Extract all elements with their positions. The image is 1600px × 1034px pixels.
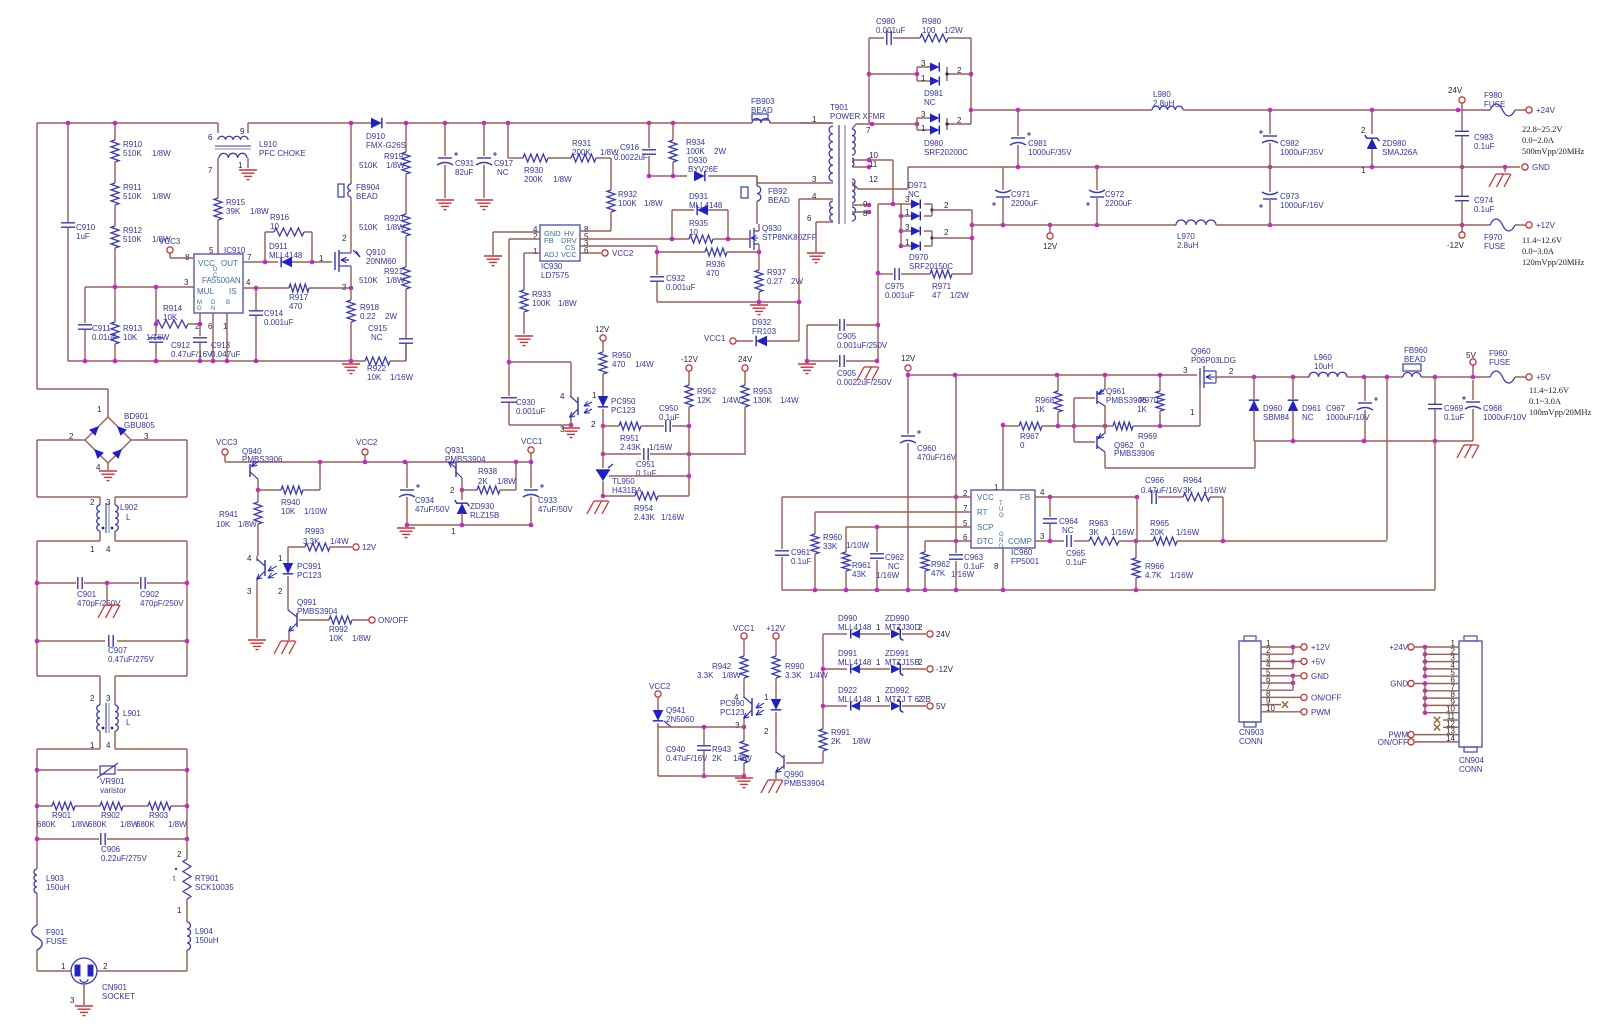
svg-text:C911: C911 [92,324,111,333]
svg-text:FUSE: FUSE [1484,242,1505,251]
svg-text:R951: R951 [620,434,640,443]
svg-text:2: 2 [1229,367,1234,376]
svg-text:2.8uH: 2.8uH [1153,99,1175,108]
svg-text:R950: R950 [612,351,632,360]
svg-text:11.4~12.6V: 11.4~12.6V [1522,235,1563,245]
svg-text:43K: 43K [852,570,867,579]
svg-text:R960: R960 [823,533,843,542]
svg-text:PC123: PC123 [297,571,322,580]
svg-text:C905: C905 [837,332,857,341]
svg-text:10K: 10K [329,634,344,643]
svg-text:1000uF/10V: 1000uF/10V [1483,413,1527,422]
svg-text:ON/OFF: ON/OFF [378,616,408,625]
svg-text:0.0~2.0A: 0.0~2.0A [1522,135,1555,145]
svg-text:BEAD: BEAD [1404,355,1426,364]
svg-text:1/8W: 1/8W [386,223,405,232]
svg-text:1: 1 [238,161,243,170]
svg-text:1: 1 [876,658,881,667]
svg-text:+12V: +12V [1536,221,1556,230]
svg-text:39K: 39K [226,207,241,216]
svg-text:1: 1 [90,741,95,750]
svg-text:100K: 100K [618,199,637,208]
svg-text:47uF/50V: 47uF/50V [415,505,450,514]
svg-text:ZD930: ZD930 [470,502,495,511]
svg-text:1: 1 [278,554,283,563]
svg-text:100: 100 [922,26,936,35]
svg-text:PMBS3904: PMBS3904 [445,455,486,464]
svg-text:DTC: DTC [977,537,994,546]
svg-text:CN904: CN904 [1459,756,1484,765]
svg-text:FUSE: FUSE [1489,358,1510,367]
svg-text:10uH: 10uH [1314,362,1333,371]
svg-text:R932: R932 [618,190,638,199]
svg-text:VCC2: VCC2 [356,438,378,447]
svg-text:R938: R938 [478,467,498,476]
svg-text:B: B [226,300,230,306]
svg-text:FUSE: FUSE [46,937,67,946]
svg-text:5V: 5V [1466,351,1476,360]
svg-text:MUL: MUL [197,287,214,296]
svg-text:MLL4148: MLL4148 [838,658,872,667]
svg-text:5V: 5V [936,702,946,711]
svg-text:10: 10 [869,151,878,160]
svg-text:2: 2 [103,962,108,971]
svg-text:PC123: PC123 [720,708,745,717]
svg-text:Q991: Q991 [297,598,317,607]
svg-text:BEAD: BEAD [356,192,378,201]
svg-text:1/10W: 1/10W [304,507,328,516]
svg-text:1uF: 1uF [76,232,90,241]
svg-text:0.1~3.0A: 0.1~3.0A [1529,396,1562,406]
svg-text:1: 1 [533,247,538,256]
svg-text:1/8W: 1/8W [558,299,577,308]
svg-text:Q960: Q960 [1191,347,1211,356]
svg-text:3.3K: 3.3K [697,671,714,680]
svg-text:1: 1 [905,208,910,217]
svg-text:Q910: Q910 [366,248,386,257]
svg-text:2: 2 [342,234,347,243]
svg-text:ON/OFF: ON/OFF [1311,693,1341,702]
svg-text:D990: D990 [838,614,858,623]
svg-text:L910: L910 [259,140,277,149]
svg-text:CN903: CN903 [1239,728,1264,737]
svg-text:2K: 2K [712,754,722,763]
svg-text:GND: GND [1532,163,1550,172]
svg-text:R930: R930 [524,166,544,175]
svg-text:FB960: FB960 [1404,346,1428,355]
svg-text:10K: 10K [216,520,231,529]
svg-text:R915: R915 [226,198,246,207]
svg-text:1: 1 [451,527,456,536]
svg-text:R991: R991 [831,728,851,737]
svg-text:C973: C973 [1280,192,1300,201]
svg-text:ON/OFF: ON/OFF [1378,738,1408,747]
svg-text:1000uF/35V: 1000uF/35V [1028,148,1072,157]
svg-text:0.1uF: 0.1uF [791,557,812,566]
svg-text:MTZJ30D: MTZJ30D [885,623,920,632]
svg-text:12V: 12V [362,543,377,552]
svg-text:3K: 3K [1183,486,1193,495]
svg-text:2K: 2K [831,737,841,746]
svg-text:20NM60: 20NM60 [366,257,397,266]
svg-text:1/16W: 1/16W [876,571,900,580]
svg-text:C933: C933 [538,496,558,505]
svg-text:4: 4 [1040,488,1045,497]
svg-text:1: 1 [876,623,881,632]
svg-text:1/16W: 1/16W [390,373,414,382]
svg-text:4: 4 [246,278,251,287]
svg-text:11: 11 [869,160,878,169]
svg-text:PMBS3906: PMBS3906 [1106,396,1147,405]
svg-text:C916: C916 [620,143,640,152]
svg-text:PMBS3906: PMBS3906 [1114,449,1155,458]
svg-text:R980: R980 [922,17,942,26]
svg-text:47: 47 [932,291,941,300]
svg-text:H431BA: H431BA [612,486,642,495]
svg-text:2W: 2W [385,312,397,321]
svg-text:10: 10 [270,222,279,231]
svg-text:COMP: COMP [1008,537,1032,546]
svg-text:510K: 510K [123,149,142,158]
svg-text:NC: NC [1302,413,1314,422]
svg-text:L903: L903 [46,874,64,883]
svg-text:0.1uF: 0.1uF [1474,142,1495,151]
svg-text:1/8W: 1/8W [722,671,741,680]
svg-text:0.27: 0.27 [767,277,783,286]
svg-text:R937: R937 [767,268,787,277]
svg-text:F970: F970 [1484,233,1503,242]
svg-text:R954: R954 [634,504,654,513]
svg-text:SCK10035: SCK10035 [195,883,234,892]
svg-text:C983: C983 [1474,133,1494,142]
svg-text:2W: 2W [714,147,726,156]
svg-text:O: O [197,306,202,312]
svg-text:2.43K: 2.43K [620,443,642,452]
svg-text:3: 3 [70,996,75,1005]
svg-text:2200uF: 2200uF [1105,199,1132,208]
svg-text:1: 1 [905,238,910,247]
svg-text:1: 1 [319,254,324,263]
svg-text:P06P03LDG: P06P03LDG [1191,356,1236,365]
svg-text:510K: 510K [123,235,142,244]
svg-text:22.8~25.2V: 22.8~25.2V [1522,124,1563,134]
svg-text:1: 1 [61,962,66,971]
svg-text:680K: 680K [136,820,155,829]
svg-text:R921: R921 [384,267,404,276]
svg-text:100K: 100K [532,299,551,308]
svg-text:510K: 510K [359,223,378,232]
svg-text:1/2W: 1/2W [950,291,969,300]
svg-text:D991: D991 [838,649,858,658]
svg-text:0.22uF/275V: 0.22uF/275V [101,854,147,863]
svg-text:3: 3 [1183,366,1188,375]
svg-text:R916: R916 [270,213,290,222]
svg-text:R942: R942 [712,662,732,671]
svg-text:510K: 510K [359,276,378,285]
svg-text:C982: C982 [1280,139,1300,148]
svg-text:C971: C971 [1011,190,1031,199]
svg-text:C967: C967 [1326,404,1346,413]
svg-text:3K: 3K [1089,528,1099,537]
svg-text:1/8W: 1/8W [152,192,171,201]
svg-text:MLL4148: MLL4148 [838,695,872,704]
svg-text:R961: R961 [852,561,872,570]
svg-text:0.47uF/16V: 0.47uF/16V [171,350,213,359]
svg-text:R967: R967 [1020,432,1040,441]
svg-text:0.001uF: 0.001uF [666,283,695,292]
svg-text:3: 3 [905,223,910,232]
svg-text:1/8W: 1/8W [386,161,405,170]
svg-text:150uH: 150uH [195,936,219,945]
svg-text:SMAJ26A: SMAJ26A [1382,148,1418,157]
svg-text:2: 2 [278,587,283,596]
svg-text:3.3K: 3.3K [303,537,320,546]
svg-text:1000uF/10V: 1000uF/10V [1326,413,1370,422]
svg-text:0.1uF: 0.1uF [659,413,680,422]
svg-text:GND: GND [1311,672,1329,681]
svg-text:PC990: PC990 [720,699,745,708]
svg-text:R920: R920 [384,214,404,223]
svg-text:C975: C975 [885,282,905,291]
svg-text:3: 3 [921,59,926,68]
svg-text:7: 7 [208,166,213,175]
svg-text:6: 6 [208,322,213,331]
svg-text:0.001uF: 0.001uF [516,407,545,416]
svg-text:1: 1 [921,74,926,83]
svg-text:+5V: +5V [1311,657,1326,666]
svg-text:10K: 10K [281,507,296,516]
svg-text:C901: C901 [77,590,97,599]
svg-text:0.01uF: 0.01uF [92,333,117,342]
svg-text:1/4W: 1/4W [809,671,828,680]
svg-text:200K: 200K [572,148,591,157]
svg-text:R971: R971 [932,282,952,291]
svg-text:+24V: +24V [1536,106,1556,115]
svg-text:12V: 12V [901,354,916,363]
svg-text:R934: R934 [686,138,706,147]
svg-text:130K: 130K [753,396,772,405]
svg-text:R911: R911 [123,183,142,192]
svg-text:IC930: IC930 [541,262,563,271]
svg-text:C964: C964 [1059,517,1079,526]
svg-text:BYV26E: BYV26E [688,165,718,174]
svg-text:4: 4 [812,192,817,201]
svg-text:2.8uH: 2.8uH [1177,241,1199,250]
svg-text:ZD991: ZD991 [885,649,910,658]
svg-text:12V: 12V [595,325,610,334]
svg-text:3: 3 [905,195,910,204]
svg-text:VCC2: VCC2 [649,682,671,691]
svg-text:D931: D931 [689,192,709,201]
svg-text:+24V: +24V [1389,643,1409,652]
svg-text:CONN: CONN [1459,765,1483,774]
svg-text:2N5060: 2N5060 [666,715,695,724]
svg-text:Q990: Q990 [784,770,804,779]
svg-text:C950: C950 [659,404,679,413]
svg-text:+12V: +12V [1311,643,1331,652]
svg-text:R913: R913 [123,324,143,333]
svg-text:0.22: 0.22 [360,312,376,321]
svg-text:200K: 200K [524,175,543,184]
svg-text:C972: C972 [1105,190,1125,199]
svg-text:NC: NC [497,168,509,177]
svg-text:2: 2 [764,727,769,736]
svg-text:3: 3 [735,721,740,730]
svg-text:D910: D910 [366,132,386,141]
svg-text:510K: 510K [123,192,142,201]
svg-text:RT901: RT901 [195,874,219,883]
svg-text:R919: R919 [384,152,404,161]
svg-text:1/8W: 1/8W [733,754,752,763]
svg-text:3: 3 [184,278,189,287]
svg-text:7: 7 [247,253,252,262]
svg-text:3: 3 [921,110,926,119]
svg-text:10: 10 [689,228,698,237]
svg-text:C930: C930 [516,398,536,407]
svg-text:150uH: 150uH [46,883,70,892]
svg-text:D970: D970 [909,253,929,262]
svg-text:R914: R914 [163,304,183,313]
svg-text:FUSE: FUSE [1484,100,1505,109]
svg-text:1/8W: 1/8W [553,175,572,184]
svg-text:R903: R903 [149,811,169,820]
svg-text:1/8W: 1/8W [250,207,269,216]
svg-text:F901: F901 [46,928,65,937]
svg-text:R901: R901 [52,811,72,820]
svg-text:1/8W: 1/8W [238,520,257,529]
svg-text:C906: C906 [101,845,121,854]
svg-text:TL950: TL950 [612,477,635,486]
svg-text:3.3K: 3.3K [785,671,802,680]
svg-text:SOCKET: SOCKET [102,992,135,1001]
svg-text:10K: 10K [123,333,138,342]
svg-text:FB92: FB92 [768,187,788,196]
svg-text:1/8W: 1/8W [644,199,663,208]
svg-text:PWM: PWM [1311,708,1331,717]
svg-text:12V: 12V [1043,242,1058,251]
svg-text:SRF20200C: SRF20200C [924,148,968,157]
svg-text:C974: C974 [1474,196,1494,205]
svg-text:C917: C917 [494,159,514,168]
svg-text:MTZJ T 6.2B: MTZJ T 6.2B [885,695,931,704]
svg-text:BEAD: BEAD [768,196,790,205]
svg-text:1/16W: 1/16W [1111,528,1135,537]
svg-text:2: 2 [450,486,455,495]
svg-text:C910: C910 [76,223,96,232]
svg-text:1/4W: 1/4W [330,537,349,546]
svg-text:R965: R965 [1150,519,1170,528]
svg-text:FB904: FB904 [356,183,380,192]
svg-text:L904: L904 [195,927,213,936]
svg-text:L960: L960 [1314,353,1332,362]
svg-text:2.43K: 2.43K [634,513,656,522]
svg-text:6: 6 [807,214,812,223]
svg-text:3: 3 [560,425,565,434]
svg-text:0.0022uF: 0.0022uF [614,153,648,162]
svg-text:IC910: IC910 [224,246,246,255]
svg-text:D932: D932 [752,318,772,327]
svg-text:0.001uF: 0.001uF [264,318,293,327]
svg-text:FB903: FB903 [751,97,775,106]
svg-text:Q931: Q931 [445,446,465,455]
svg-text:PC991: PC991 [297,562,322,571]
svg-text:11.4~12.6V: 11.4~12.6V [1529,385,1570,395]
svg-text:FB: FB [544,236,554,245]
svg-text:R922: R922 [367,364,387,373]
svg-text:R935: R935 [689,219,709,228]
svg-text:2: 2 [957,116,962,125]
svg-text:C905: C905 [837,369,857,378]
svg-text:VCC3: VCC3 [216,438,238,447]
svg-text:1000uF/16V: 1000uF/16V [1280,201,1324,210]
svg-text:R968: R968 [1035,396,1055,405]
svg-text:R953: R953 [753,387,773,396]
svg-text:1/16W: 1/16W [1176,528,1200,537]
svg-text:1: 1 [177,906,182,915]
svg-text:2W: 2W [791,277,803,286]
svg-text:2: 2 [944,228,949,237]
svg-text:GBU805: GBU805 [124,421,155,430]
svg-text:RLZ15B: RLZ15B [470,511,499,520]
svg-text:+12V: +12V [766,624,786,633]
svg-text:PC123: PC123 [611,406,636,415]
svg-text:PMBS3904: PMBS3904 [297,607,338,616]
svg-text:0.0022uF/250V: 0.0022uF/250V [837,378,892,387]
svg-text:0.1uF: 0.1uF [1474,205,1495,214]
svg-text:LD7575: LD7575 [541,271,570,280]
svg-text:1000uF/35V: 1000uF/35V [1280,148,1324,157]
svg-text:0.47uF/16V: 0.47uF/16V [1141,486,1183,495]
svg-text:10K: 10K [163,313,178,322]
svg-text:470uF/16V: 470uF/16V [917,453,957,462]
svg-text:1: 1 [764,693,769,702]
svg-text:O: O [999,513,1004,519]
svg-text:MLL4148: MLL4148 [689,201,723,210]
svg-text:2: 2 [957,66,962,75]
svg-text:1: 1 [876,695,881,704]
svg-text:POWER XFMR: POWER XFMR [830,112,885,121]
svg-text:SBM84: SBM84 [1263,413,1290,422]
svg-text:1: 1 [812,115,817,124]
svg-text:470pF/250V: 470pF/250V [140,599,184,608]
svg-text:R962: R962 [931,560,951,569]
svg-text:IS: IS [229,287,237,296]
svg-text:C951: C951 [636,460,656,469]
svg-text:1/8W: 1/8W [386,276,405,285]
svg-text:10K: 10K [367,373,382,382]
svg-text:47uF/50V: 47uF/50V [538,505,573,514]
svg-text:R936: R936 [706,260,726,269]
svg-text:C968: C968 [1483,404,1503,413]
svg-text:1: 1 [90,545,95,554]
svg-text:Q930: Q930 [762,224,782,233]
svg-text:C981: C981 [1028,139,1048,148]
svg-text:C932: C932 [666,274,686,283]
svg-text:D980: D980 [924,139,944,148]
svg-text:0.001uF: 0.001uF [876,26,905,35]
svg-text:VCC2: VCC2 [612,249,634,258]
svg-text:D922: D922 [838,686,858,695]
svg-text:C940: C940 [666,745,686,754]
svg-text:1: 1 [97,405,102,414]
svg-text:VCC3: VCC3 [159,237,181,246]
svg-text:1/4W: 1/4W [635,360,654,369]
svg-text:4: 4 [247,554,252,563]
svg-text:8: 8 [994,562,999,571]
svg-text:7: 7 [866,126,871,135]
svg-text:2: 2 [944,201,949,210]
svg-text:2K: 2K [478,477,488,486]
